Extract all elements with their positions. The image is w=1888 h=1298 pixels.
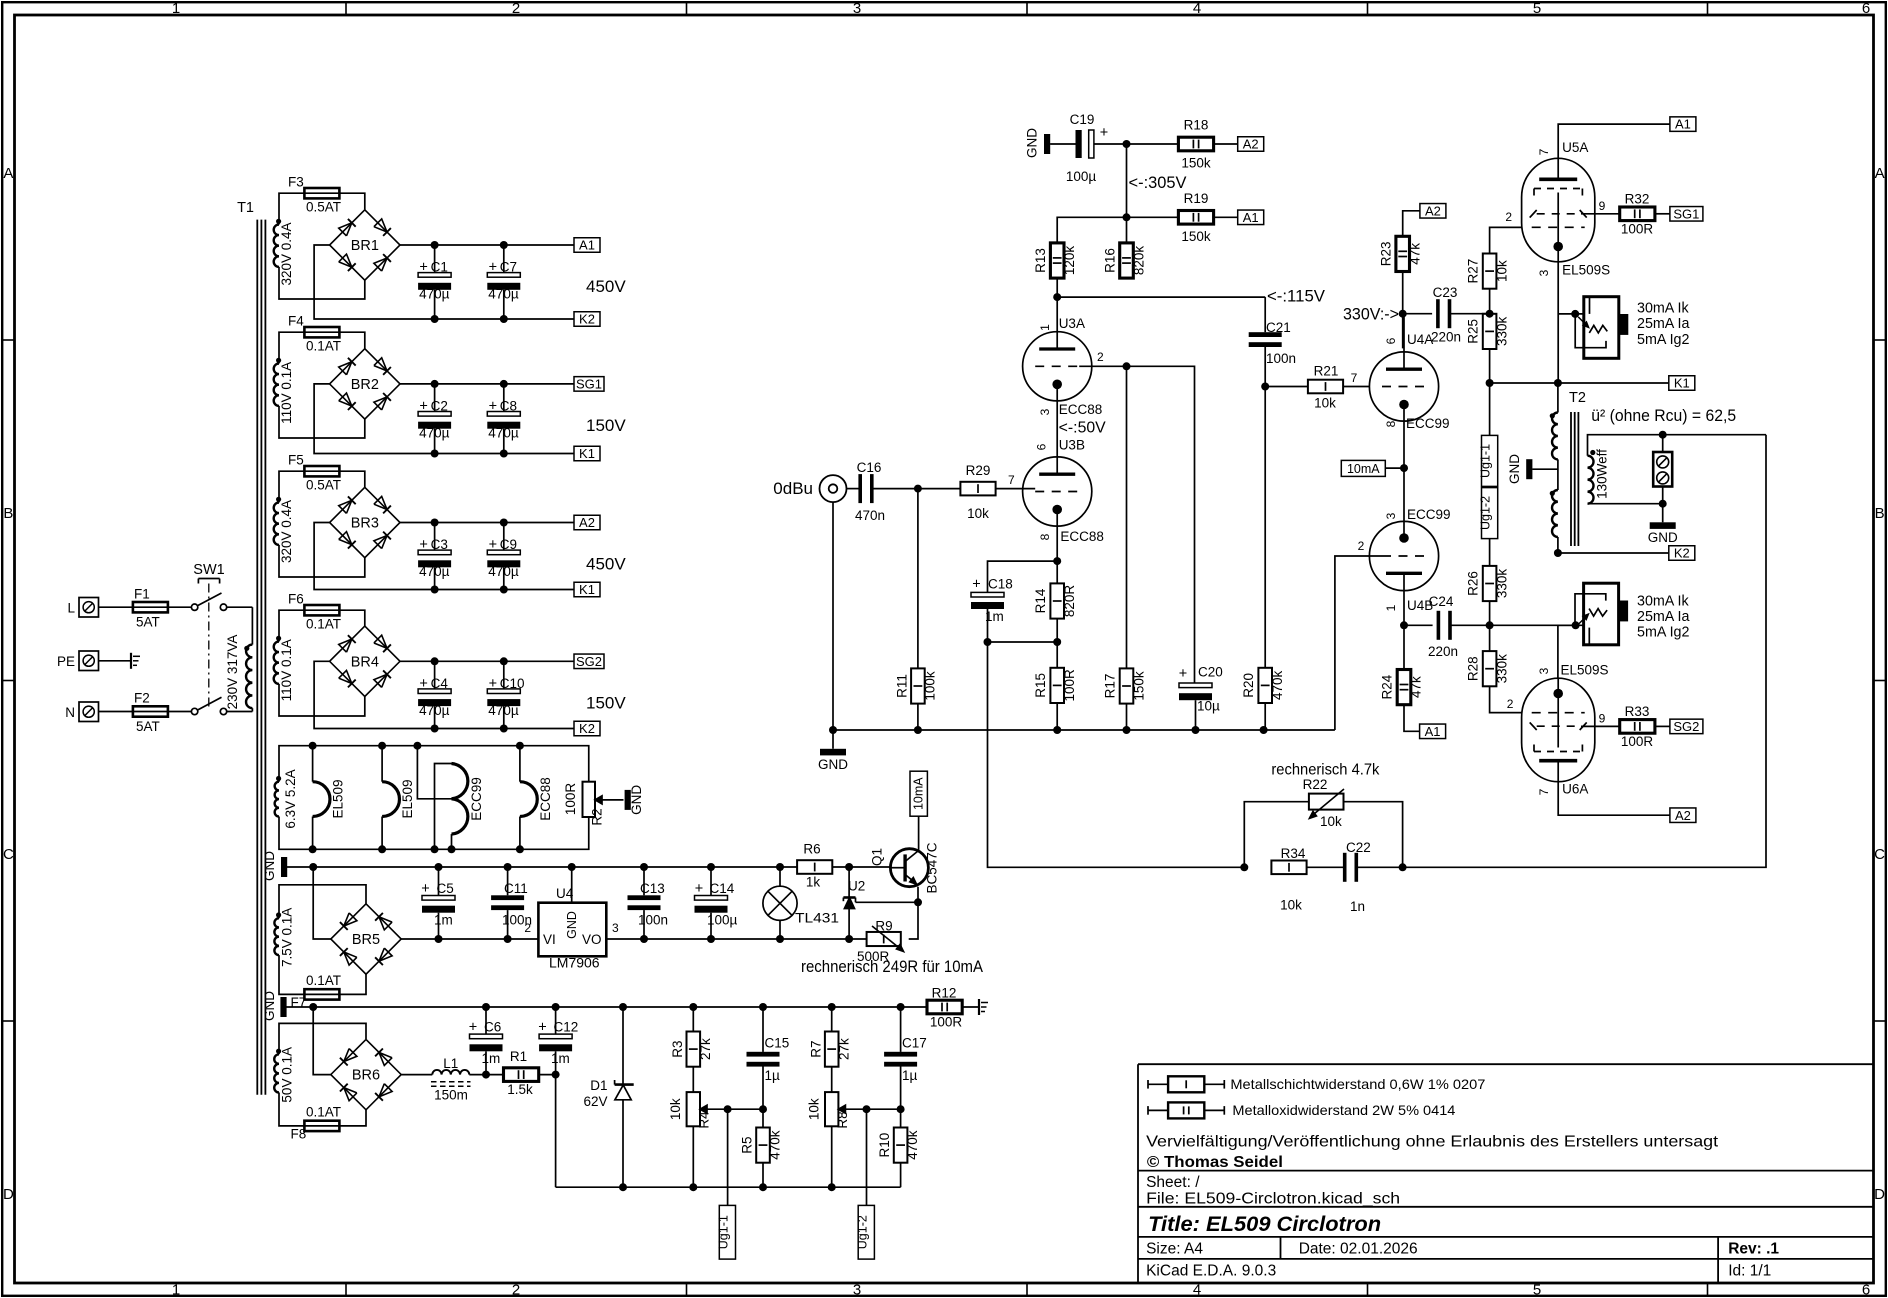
svg-text:150V: 150V (586, 693, 626, 712)
svg-text:BR2: BR2 (351, 377, 379, 393)
svg-text:7: 7 (1537, 148, 1551, 155)
svg-text:Ug1-1: Ug1-1 (1479, 444, 1493, 478)
svg-text:27k: 27k (698, 1038, 713, 1060)
svg-text:R33: R33 (1625, 704, 1650, 719)
svg-text:9: 9 (1599, 199, 1606, 213)
svg-text:2: 2 (512, 0, 520, 17)
svg-text:+: + (538, 1020, 546, 1036)
svg-text:470k: 470k (905, 1130, 920, 1160)
svg-text:5AT: 5AT (136, 615, 160, 630)
svg-text:7.5V 0.1A: 7.5V 0.1A (280, 908, 295, 967)
svg-text:100k: 100k (923, 671, 938, 701)
svg-text:A2: A2 (1675, 808, 1691, 823)
svg-text:50V 0.1A: 50V 0.1A (280, 1047, 295, 1103)
svg-text:K1: K1 (579, 582, 595, 597)
svg-text:C24: C24 (1429, 594, 1454, 609)
svg-text:+: + (489, 676, 497, 692)
svg-text:R4: R4 (697, 1111, 712, 1129)
svg-text:U6A: U6A (1562, 782, 1588, 797)
svg-text:+: + (421, 881, 429, 897)
svg-text:27k: 27k (837, 1038, 852, 1060)
svg-text:30mA Ik: 30mA Ik (1637, 301, 1690, 317)
svg-text:1: 1 (172, 0, 180, 17)
svg-text:10k: 10k (1280, 898, 1302, 913)
svg-text:2: 2 (1507, 697, 1514, 711)
svg-text:7: 7 (1008, 473, 1015, 487)
svg-text:R25: R25 (1466, 319, 1481, 344)
svg-text:Ug1-2: Ug1-2 (1479, 496, 1493, 530)
svg-text:470µ: 470µ (419, 703, 450, 718)
svg-text:U2: U2 (848, 879, 865, 894)
svg-text:F6: F6 (288, 592, 304, 607)
svg-text:10mA: 10mA (912, 777, 926, 810)
svg-text:100R: 100R (563, 783, 578, 816)
svg-text:<-:305V: <-:305V (1129, 173, 1188, 192)
svg-text:470µ: 470µ (419, 287, 450, 302)
svg-text:100n: 100n (1266, 351, 1296, 366)
svg-text:100R: 100R (930, 1015, 963, 1030)
svg-text:110V 0.1A: 110V 0.1A (279, 362, 294, 424)
svg-text:C1: C1 (431, 260, 448, 275)
svg-text:+: + (489, 537, 497, 553)
svg-text:0.1AT: 0.1AT (306, 973, 341, 988)
svg-text:5: 5 (1533, 1282, 1541, 1298)
svg-text:820k: 820k (1132, 246, 1147, 276)
svg-text:C21: C21 (1266, 320, 1291, 335)
svg-text:VI: VI (543, 932, 556, 947)
svg-text:C22: C22 (1346, 840, 1371, 855)
svg-text:A2: A2 (1425, 203, 1441, 218)
svg-text:25mA Ia: 25mA Ia (1637, 609, 1690, 625)
svg-text:150m: 150m (434, 1088, 468, 1103)
svg-text:2: 2 (1505, 210, 1512, 224)
svg-text:R18: R18 (1184, 118, 1209, 133)
svg-text:150k: 150k (1132, 671, 1147, 701)
svg-text:C12: C12 (554, 1020, 579, 1035)
svg-text:6: 6 (1862, 0, 1870, 17)
svg-text:R23: R23 (1379, 242, 1394, 267)
svg-text:1: 1 (172, 1282, 180, 1298)
svg-text:+: + (419, 537, 427, 553)
svg-text:470µ: 470µ (488, 425, 519, 440)
svg-text:R29: R29 (966, 463, 991, 478)
svg-text:+: + (469, 1020, 477, 1036)
svg-text:2: 2 (1358, 539, 1365, 553)
svg-text:C6: C6 (484, 1020, 501, 1035)
svg-text:+: + (419, 398, 427, 414)
svg-text:7: 7 (1351, 371, 1358, 385)
svg-text:1m: 1m (482, 1051, 501, 1066)
svg-text:7: 7 (1537, 788, 1551, 795)
svg-text:ECC88: ECC88 (538, 777, 553, 821)
svg-text:Size: A4: Size: A4 (1146, 1240, 1203, 1257)
svg-text:0.1AT: 0.1AT (306, 617, 341, 632)
svg-text:R12: R12 (932, 986, 957, 1001)
svg-text:BR3: BR3 (351, 516, 379, 532)
svg-text:3: 3 (612, 921, 619, 935)
svg-text:SG1: SG1 (1673, 206, 1699, 221)
svg-text:150k: 150k (1181, 156, 1211, 171)
svg-text:470µ: 470µ (419, 425, 450, 440)
svg-text:+: + (489, 398, 497, 414)
svg-text:D1: D1 (590, 1078, 607, 1093)
svg-text:A: A (3, 165, 13, 182)
svg-text:BR4: BR4 (351, 654, 379, 670)
svg-text:Vervielfältigung/Veröffentlich: Vervielfältigung/Veröffentlichung ohne E… (1146, 1134, 1719, 1151)
svg-text:© Thomas Seidel: © Thomas Seidel (1147, 1154, 1283, 1171)
svg-text:1µ: 1µ (765, 1068, 781, 1083)
svg-text:R13: R13 (1033, 248, 1048, 273)
svg-text:C8: C8 (500, 398, 517, 413)
svg-text:SG1: SG1 (576, 377, 602, 392)
svg-text:470µ: 470µ (488, 703, 519, 718)
svg-text:2: 2 (512, 1282, 520, 1298)
svg-text:VO: VO (582, 932, 602, 947)
svg-text:Id: 1/1: Id: 1/1 (1728, 1263, 1771, 1280)
svg-text:Metalloxidwiderstand 2W 5% 041: Metalloxidwiderstand 2W 5% 0414 (1232, 1102, 1455, 1118)
svg-text:C15: C15 (765, 1036, 790, 1051)
svg-text:SW1: SW1 (193, 562, 224, 578)
svg-text:C: C (3, 846, 14, 863)
svg-text:100µ: 100µ (1066, 169, 1097, 184)
svg-text:Rev: .1: Rev: .1 (1728, 1240, 1779, 1257)
svg-text:4: 4 (1193, 1282, 1201, 1298)
svg-text:BC547C: BC547C (925, 842, 940, 893)
svg-text:R8: R8 (835, 1111, 850, 1128)
svg-text:U3B: U3B (1059, 438, 1085, 453)
svg-text:A: A (1875, 165, 1885, 182)
svg-text:F5: F5 (288, 453, 304, 468)
svg-text:470µ: 470µ (419, 564, 450, 579)
svg-text:A2: A2 (1243, 137, 1259, 152)
svg-text:ECC99: ECC99 (1407, 507, 1451, 522)
svg-text:K2: K2 (579, 312, 595, 327)
svg-text:EL509: EL509 (331, 779, 346, 818)
svg-text:GND: GND (262, 851, 277, 881)
svg-text:C11: C11 (504, 881, 528, 896)
svg-text:BR6: BR6 (352, 1068, 380, 1084)
svg-text:R3: R3 (670, 1040, 685, 1057)
svg-text:R27: R27 (1466, 259, 1481, 284)
svg-text:U5A: U5A (1562, 140, 1588, 155)
svg-text:1: 1 (1038, 324, 1052, 331)
svg-text:SG2: SG2 (1673, 719, 1699, 734)
svg-text:3: 3 (1537, 667, 1551, 674)
svg-text:K1: K1 (1674, 376, 1690, 391)
svg-text:R28: R28 (1466, 656, 1481, 681)
svg-text:120k: 120k (1062, 246, 1077, 276)
svg-text:+: + (972, 577, 980, 593)
svg-text:GND: GND (1507, 454, 1522, 484)
svg-text:2: 2 (1097, 350, 1104, 364)
svg-text:100R: 100R (1062, 669, 1077, 702)
svg-text:0.1AT: 0.1AT (306, 1105, 341, 1120)
svg-text:30mA Ik: 30mA Ik (1637, 593, 1690, 609)
svg-text:N: N (65, 705, 75, 720)
svg-text:C3: C3 (431, 537, 448, 552)
svg-text:4: 4 (1193, 0, 1201, 17)
svg-text:C: C (1874, 846, 1885, 863)
svg-text:LM7906: LM7906 (549, 955, 600, 971)
svg-text:47k: 47k (1408, 243, 1423, 265)
svg-text:EL509S: EL509S (1562, 263, 1610, 278)
svg-text:1m: 1m (551, 1051, 570, 1066)
svg-text:R34: R34 (1281, 846, 1306, 861)
svg-text:C20: C20 (1198, 665, 1223, 680)
svg-text:rechnerisch 4.7k: rechnerisch 4.7k (1271, 762, 1380, 779)
svg-text:47k: 47k (1409, 676, 1424, 698)
svg-text:KiCad E.D.A. 9.0.3: KiCad E.D.A. 9.0.3 (1146, 1263, 1276, 1280)
svg-text:10k: 10k (807, 1098, 822, 1120)
svg-text:0.5AT: 0.5AT (306, 478, 341, 493)
svg-text:150k: 150k (1181, 229, 1211, 244)
svg-text:GND: GND (818, 757, 848, 772)
svg-text:10k: 10k (668, 1098, 683, 1120)
svg-text:R14: R14 (1033, 588, 1048, 613)
svg-text:R6: R6 (803, 842, 820, 857)
svg-text:3: 3 (853, 0, 861, 17)
svg-text:6: 6 (1384, 337, 1398, 344)
svg-text:220n: 220n (1428, 644, 1458, 659)
svg-text:R5: R5 (740, 1136, 755, 1153)
svg-text:R17: R17 (1103, 674, 1118, 699)
svg-text:C9: C9 (500, 537, 517, 552)
svg-text:110V 0.1A: 110V 0.1A (279, 639, 294, 701)
svg-text:U4A: U4A (1407, 332, 1433, 347)
svg-text:C17: C17 (902, 1036, 927, 1051)
svg-text:1.5k: 1.5k (507, 1082, 533, 1097)
svg-text:+: + (695, 881, 703, 897)
svg-text:1µ: 1µ (902, 1068, 918, 1083)
svg-text:470k: 470k (768, 1130, 783, 1160)
svg-text:820R: 820R (1062, 585, 1077, 618)
svg-text:1k: 1k (806, 875, 821, 890)
svg-text:330k: 330k (1495, 569, 1510, 599)
svg-text:+: + (419, 676, 427, 692)
svg-text:C16: C16 (857, 460, 882, 475)
svg-text:F2: F2 (134, 691, 150, 706)
svg-text:C4: C4 (431, 676, 449, 691)
svg-text:3: 3 (853, 1282, 861, 1298)
svg-text:470µ: 470µ (488, 564, 519, 579)
svg-text:330V:->: 330V:-> (1343, 305, 1399, 324)
svg-text:R15: R15 (1033, 673, 1048, 698)
svg-text:6.3V 5.2A: 6.3V 5.2A (283, 769, 298, 828)
svg-text:8: 8 (1038, 533, 1052, 540)
svg-text:10µ: 10µ (1197, 699, 1220, 714)
svg-text:10k: 10k (1495, 260, 1510, 282)
svg-text:U4: U4 (556, 886, 574, 901)
svg-text:100R: 100R (1621, 734, 1654, 749)
svg-text:GND: GND (262, 991, 277, 1021)
svg-text:150V: 150V (586, 416, 626, 435)
svg-text:5mA Ig2: 5mA Ig2 (1637, 332, 1690, 348)
svg-text:SG2: SG2 (576, 654, 602, 669)
svg-text:C13: C13 (640, 881, 665, 896)
svg-text:+: + (1179, 666, 1187, 682)
svg-text:10k: 10k (1320, 814, 1342, 829)
svg-text:130Weff: 130Weff (1595, 449, 1610, 499)
svg-text:25mA Ia: 25mA Ia (1637, 316, 1690, 332)
svg-text:R7: R7 (809, 1040, 824, 1057)
svg-text:R26: R26 (1466, 571, 1481, 596)
svg-text:320V 0.4A: 320V 0.4A (279, 500, 294, 563)
svg-text:C23: C23 (1433, 285, 1458, 300)
svg-text:F8: F8 (291, 1127, 307, 1142)
svg-text:10k: 10k (967, 506, 989, 521)
svg-text:+: + (419, 260, 427, 276)
svg-text:EL509S: EL509S (1561, 663, 1609, 678)
svg-text:D: D (1874, 1186, 1885, 1203)
svg-text:330k: 330k (1495, 654, 1510, 684)
svg-text:PE: PE (57, 654, 75, 669)
svg-text:320V 0.4A: 320V 0.4A (279, 222, 294, 285)
svg-text:450V: 450V (586, 277, 626, 296)
svg-text:K2: K2 (1674, 546, 1690, 561)
svg-text:100R: 100R (1621, 222, 1654, 237)
svg-text:EL509: EL509 (400, 779, 415, 818)
svg-text:R19: R19 (1184, 191, 1209, 206)
svg-text:10k: 10k (1314, 396, 1336, 411)
svg-text:R20: R20 (1241, 673, 1256, 698)
svg-text:1m: 1m (434, 913, 453, 928)
svg-text:GND: GND (629, 785, 644, 815)
svg-text:R22: R22 (1303, 777, 1328, 792)
svg-text:GND: GND (1025, 128, 1040, 158)
svg-text:Ug1-1: Ug1-1 (717, 1215, 731, 1249)
svg-text:BR5: BR5 (352, 932, 380, 948)
svg-text:C10: C10 (500, 676, 525, 691)
svg-text:330k: 330k (1495, 317, 1510, 347)
svg-text:R2: R2 (590, 808, 605, 825)
svg-text:Title: EL509 Circlotron: Title: EL509 Circlotron (1148, 1213, 1381, 1236)
svg-text:Date: 02.01.2026: Date: 02.01.2026 (1299, 1240, 1418, 1257)
svg-text:TL431: TL431 (795, 910, 839, 926)
svg-text:+: + (1100, 125, 1108, 141)
svg-text:220n: 220n (1431, 330, 1461, 345)
svg-text:10mA: 10mA (1347, 462, 1380, 476)
svg-text:3: 3 (1384, 512, 1398, 519)
svg-text:0.5AT: 0.5AT (306, 200, 341, 215)
svg-text:R10: R10 (877, 1133, 892, 1158)
svg-text:D: D (3, 1186, 14, 1203)
svg-text:R32: R32 (1625, 192, 1650, 207)
svg-text:R9: R9 (875, 919, 892, 934)
svg-text:F4: F4 (288, 314, 304, 329)
svg-text:File: EL509-Circlotron.kicad_s: File: EL509-Circlotron.kicad_sch (1146, 1190, 1400, 1207)
svg-text:ECC99: ECC99 (1406, 416, 1450, 431)
svg-text:R11: R11 (895, 674, 910, 698)
svg-text:1: 1 (1384, 604, 1398, 611)
svg-text:ECC99: ECC99 (469, 777, 484, 821)
svg-text:B: B (3, 505, 13, 522)
svg-text:K2: K2 (579, 721, 595, 736)
svg-text:C14: C14 (710, 881, 735, 896)
svg-text:Metallschichtwiderstand 0,6W 1: Metallschichtwiderstand 0,6W 1% 0207 (1230, 1076, 1485, 1092)
svg-text:Ug1-2: Ug1-2 (856, 1215, 870, 1249)
svg-text:+: + (489, 260, 497, 276)
svg-text:R1: R1 (510, 1049, 527, 1064)
svg-text:5AT: 5AT (136, 719, 160, 734)
svg-text:R24: R24 (1380, 674, 1395, 699)
svg-text:K1: K1 (579, 446, 595, 461)
svg-text:6: 6 (1862, 1282, 1870, 1298)
svg-text:100n: 100n (638, 913, 668, 928)
svg-text:A1: A1 (1425, 724, 1441, 739)
svg-text:2: 2 (524, 921, 531, 935)
svg-text:C5: C5 (437, 881, 454, 896)
svg-text:230V 317VA: 230V 317VA (225, 635, 240, 710)
svg-text:GND: GND (1648, 530, 1678, 545)
svg-text:450V: 450V (586, 555, 626, 574)
svg-text:1n: 1n (1350, 899, 1365, 914)
svg-text:470µ: 470µ (488, 287, 519, 302)
svg-text:C2: C2 (431, 398, 448, 413)
svg-text:C18: C18 (988, 577, 1013, 592)
svg-text:5mA Ig2: 5mA Ig2 (1637, 625, 1690, 641)
svg-text:3: 3 (1537, 269, 1551, 276)
svg-text:470n: 470n (855, 508, 885, 523)
svg-text:<-:50V: <-:50V (1059, 420, 1107, 437)
svg-text:L: L (67, 601, 75, 616)
svg-text:100µ: 100µ (707, 913, 738, 928)
svg-text:ü² (ohne Rcu) = 62,5: ü² (ohne Rcu) = 62,5 (1591, 407, 1736, 425)
svg-text:GND: GND (565, 911, 579, 939)
svg-text:0.1AT: 0.1AT (306, 339, 341, 354)
svg-text:ECC88: ECC88 (1059, 402, 1103, 417)
svg-text:Q1: Q1 (870, 848, 885, 866)
svg-text:470k: 470k (1270, 671, 1285, 701)
svg-text:L1: L1 (443, 1056, 458, 1071)
svg-text:B: B (1875, 505, 1885, 522)
svg-text:BR1: BR1 (351, 238, 379, 254)
svg-text:C19: C19 (1070, 112, 1095, 127)
svg-text:3: 3 (1038, 408, 1052, 415)
svg-text:A1: A1 (579, 238, 595, 253)
svg-text:A2: A2 (579, 515, 595, 530)
svg-text:R16: R16 (1103, 248, 1118, 273)
svg-text:C7: C7 (500, 260, 517, 275)
svg-text:F3: F3 (288, 175, 304, 190)
svg-text:8: 8 (1384, 420, 1398, 427)
svg-text:0dBu: 0dBu (773, 479, 813, 498)
svg-text:F1: F1 (134, 587, 150, 602)
svg-text:U3A: U3A (1059, 316, 1085, 331)
svg-text:ECC88: ECC88 (1060, 529, 1104, 544)
svg-text:62V: 62V (583, 1094, 607, 1109)
svg-text:A1: A1 (1243, 210, 1259, 225)
svg-text:5: 5 (1533, 0, 1541, 17)
svg-text:T1: T1 (237, 200, 254, 216)
svg-text:R21: R21 (1314, 364, 1339, 379)
svg-text:T2: T2 (1569, 390, 1586, 406)
svg-text:6: 6 (1035, 443, 1049, 450)
svg-text:<-:115V: <-:115V (1267, 287, 1326, 306)
svg-text:A1: A1 (1675, 117, 1691, 132)
svg-text:9: 9 (1599, 712, 1606, 726)
svg-text:rechnerisch 249R für 10mA: rechnerisch 249R für 10mA (801, 958, 983, 976)
svg-text:Sheet: /: Sheet: / (1146, 1174, 1200, 1191)
